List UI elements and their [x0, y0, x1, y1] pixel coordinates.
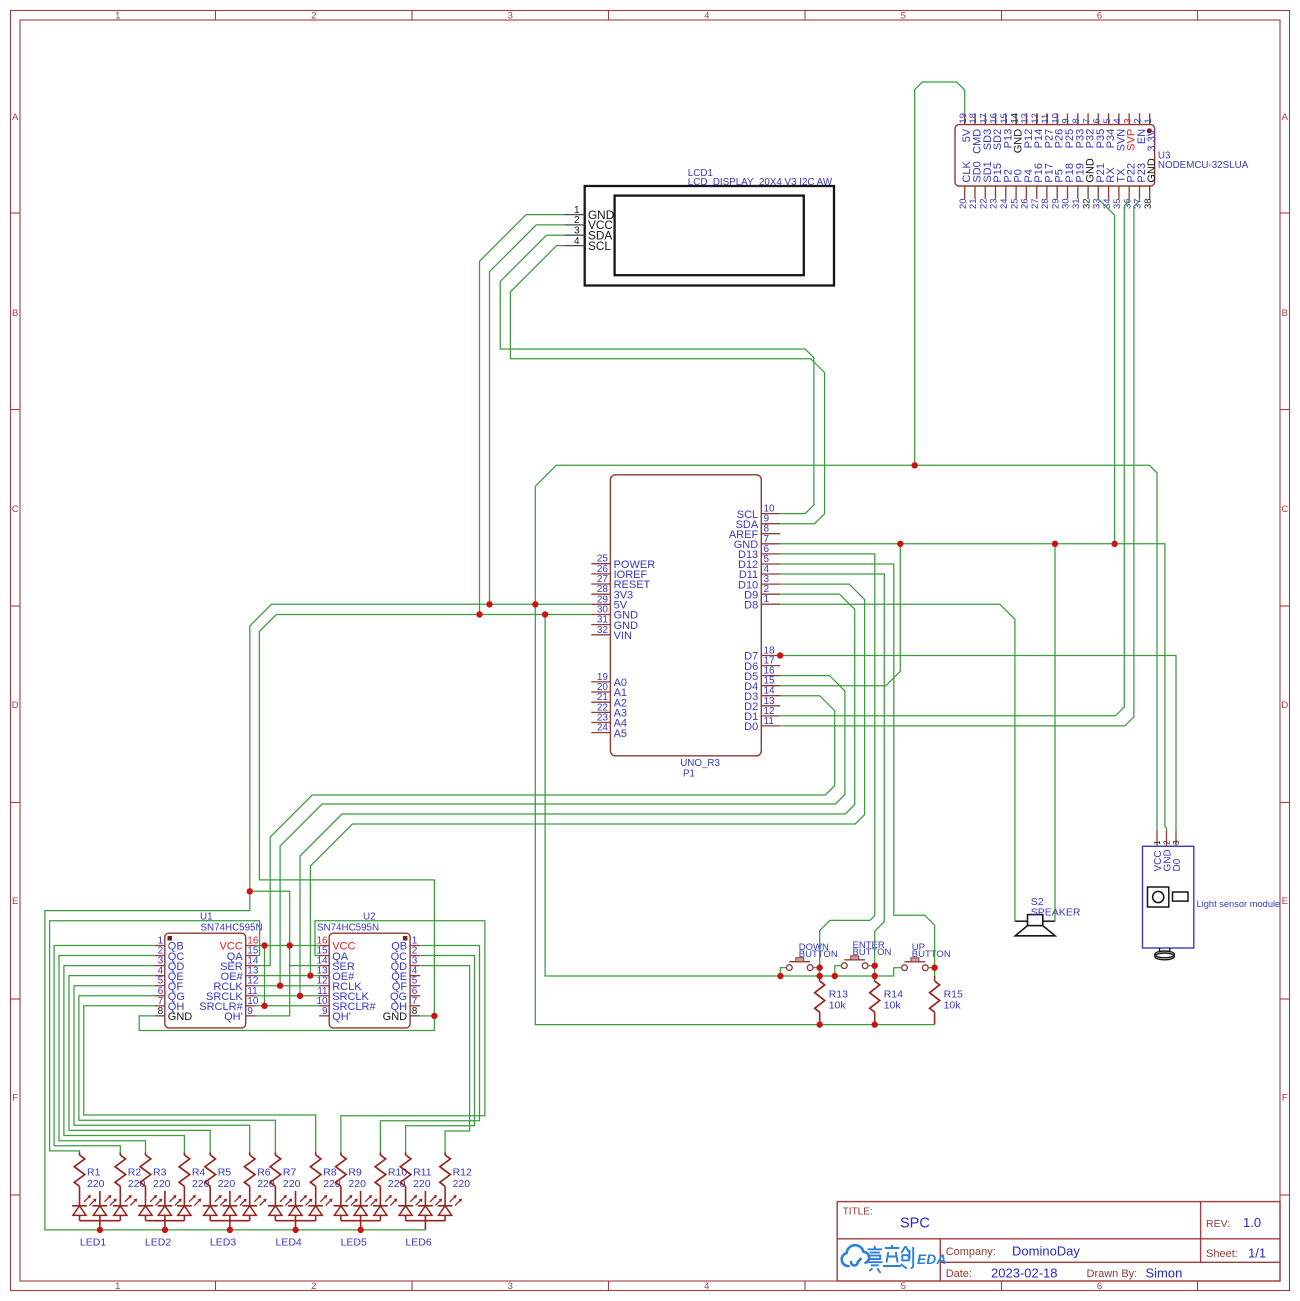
LED LED1 (dual) — [72, 1191, 137, 1249]
wire U3 P22 to P1 D1 — [780, 199, 1129, 716]
shift register U2 SN74HC595N body — [329, 933, 410, 1028]
svg-text:F: F — [12, 1092, 18, 1103]
svg-text:1: 1 — [1143, 118, 1154, 123]
resistor R6 220 — [244, 1153, 274, 1206]
svg-text:EDA: EDA — [917, 1252, 947, 1267]
svg-text:SCL: SCL — [588, 239, 611, 253]
wire U1 QD to R4 — [64, 966, 184, 1153]
svg-text:LED2: LED2 — [145, 1237, 171, 1249]
wire U1 QC to R3 — [59, 956, 155, 1153]
wire SRCLK rail U1-U2 — [256, 995, 320, 997]
svg-text:A5: A5 — [614, 728, 627, 740]
U1 pin 11 SRCLK — [206, 986, 258, 1003]
junction R13 top — [817, 973, 823, 979]
P1 pin 22 A3 — [591, 702, 627, 719]
U3 pin 36 P22 (bottom) — [1122, 163, 1137, 209]
resistor R8 220 — [310, 1153, 340, 1206]
U3 pin 23 P15 (bottom) — [989, 163, 1004, 209]
U3 pin 1 3.3V (top) — [1143, 113, 1158, 151]
wire to U2 SER — [290, 965, 320, 967]
MCU board UNO_R3 P1 body — [610, 475, 761, 756]
P1 pin 9 SDA — [736, 514, 781, 531]
U3 pin 18 CMD (top) — [968, 113, 983, 154]
svg-text:6: 6 — [1097, 1281, 1102, 1292]
U3 pin 22 SD1 (bottom) — [979, 161, 994, 209]
svg-text:BUTTON: BUTTON — [912, 949, 951, 960]
P1 pin 31 GND — [591, 615, 638, 632]
svg-text:38: 38 — [1143, 198, 1154, 209]
wire U2 GND stub link — [421, 1015, 435, 1017]
svg-text:Light sensor module: Light sensor module — [1197, 899, 1281, 909]
junction LED5 — [358, 1227, 364, 1233]
svg-text:LED1: LED1 — [80, 1237, 106, 1249]
wire speaker to GND line — [1054, 544, 1056, 922]
resistor R7 220 — [270, 1153, 300, 1206]
svg-text:BUTTON: BUTTON — [853, 947, 892, 958]
svg-text:Company:: Company: — [946, 1246, 996, 1258]
U3 pin 20 CLK (bottom) — [958, 161, 973, 209]
U2 pin 7 QH — [391, 996, 421, 1013]
wire U3 P21 to GND line — [1098, 199, 1114, 544]
U3 pin 28 P17 (bottom) — [1040, 163, 1055, 209]
svg-text:3.3V: 3.3V — [1146, 128, 1158, 151]
pushbutton ENTER BUTTON — [841, 940, 891, 969]
U1 pin 16 VCC — [219, 936, 258, 953]
U3 pin 21 SD0 (bottom) — [968, 161, 983, 209]
junction R14 top — [872, 973, 878, 979]
wire DOWN button leads — [780, 966, 934, 976]
light sensor pin 3 D0 — [1172, 831, 1183, 872]
wire 5V top line to light sensor VCC — [535, 465, 1157, 830]
LED LED5 (dual) — [334, 1191, 398, 1249]
svg-text:11: 11 — [764, 716, 775, 727]
junction R13 bottom — [817, 1021, 823, 1027]
svg-text:R8: R8 — [323, 1167, 337, 1179]
junction rail DOWN — [777, 973, 783, 979]
svg-text:R9: R9 — [348, 1167, 362, 1179]
svg-text:R12: R12 — [453, 1167, 472, 1179]
U3 pin 31 P19 (bottom) — [1071, 163, 1086, 209]
U1 pin 5 QF — [155, 976, 184, 993]
U3 pin 24 P2 (bottom) — [999, 169, 1014, 209]
wire P1 D9 to SRCLK rail — [300, 594, 855, 996]
junction GND D4 — [897, 541, 903, 547]
junction GND LCD — [476, 611, 482, 617]
junction UP terminal — [931, 965, 937, 971]
U2 pin 4 QE — [391, 966, 420, 983]
svg-text:R6: R6 — [257, 1167, 271, 1179]
LED LED4 (dual) — [268, 1191, 333, 1249]
svg-text:3: 3 — [574, 225, 580, 236]
P1 pin 23 A4 — [591, 713, 627, 730]
svg-text:B: B — [12, 308, 18, 319]
U1 pin 15 QA — [227, 946, 259, 963]
svg-text:R7: R7 — [283, 1167, 297, 1179]
svg-text:3: 3 — [1172, 840, 1181, 845]
wire U1 QH to R8 — [84, 1006, 316, 1153]
svg-text:LED3: LED3 — [210, 1237, 236, 1249]
LED LED3 (dual) — [203, 1191, 267, 1249]
P1 pin 28 3V3 — [591, 584, 633, 601]
P1 pin 21 A2 — [591, 692, 627, 709]
svg-text:UNO_R3: UNO_R3 — [680, 758, 720, 769]
U3 pin 9 P25 (top) — [1061, 113, 1076, 148]
LED LED6 (dual) — [398, 1191, 462, 1249]
svg-text:GND: GND — [383, 1011, 408, 1023]
light sensor trimmer rect — [1173, 892, 1189, 901]
speaker S2 — [1015, 896, 1081, 936]
pushbutton DOWN BUTTON — [786, 942, 837, 971]
P1 pin 32 VIN — [591, 625, 632, 642]
svg-text:SN74HC595N: SN74HC595N — [317, 922, 379, 933]
junction U2 GND — [431, 1013, 437, 1019]
U2 pin-1 marker — [403, 936, 408, 941]
U3 pin 35 TX (bottom) — [1112, 168, 1127, 209]
junction SRCLR rail — [261, 1003, 267, 1009]
junction VCC rail 2 — [287, 942, 293, 948]
U2 pin 13 OE# — [316, 966, 355, 983]
svg-text:D: D — [12, 700, 19, 711]
junction GND speaker — [1052, 541, 1058, 547]
U2 pin 6 QG — [390, 986, 420, 1003]
title block — [837, 1202, 1280, 1281]
U2 pin 14 SER — [316, 956, 354, 973]
svg-text:4: 4 — [704, 10, 709, 21]
U3 pin 3 SVP (top) — [1122, 113, 1137, 151]
svg-text:220: 220 — [218, 1178, 236, 1190]
U1 pin 3 QD — [155, 956, 185, 973]
svg-text:C: C — [12, 504, 19, 515]
LCD1 pin 1 GND — [564, 205, 614, 222]
svg-text:32: 32 — [597, 625, 609, 636]
svg-text:R4: R4 — [192, 1167, 206, 1179]
junction GND P21 — [1111, 541, 1117, 547]
U1 pin 10 SRCLR# — [199, 996, 259, 1013]
svg-text:R10: R10 — [388, 1167, 407, 1179]
U2 pin 3 QD — [391, 956, 421, 973]
wire P1 GND7 to light sensor GND — [780, 544, 1166, 831]
junction rail ENTER — [832, 973, 838, 979]
svg-text:R2: R2 — [128, 1167, 142, 1179]
wire P1 D5 to RCLK rail — [280, 676, 845, 986]
U1 pin 2 QC — [155, 946, 185, 963]
U1 pin 9 QH' — [224, 1006, 256, 1023]
junction LED4 — [292, 1227, 298, 1233]
svg-text:D8: D8 — [744, 599, 758, 611]
junction 5V drop — [532, 601, 538, 607]
svg-text:LED6: LED6 — [405, 1237, 431, 1249]
wire SRCLR# rail U1-U2 — [256, 1005, 320, 1007]
junction 5V — [247, 888, 253, 894]
P1 pin 18 D7 — [744, 646, 780, 663]
svg-text:4: 4 — [704, 1281, 709, 1292]
resistor R4 220 — [179, 1153, 209, 1206]
P1 pin 20 A1 — [591, 682, 627, 699]
wire P1 D10 to OE rail — [310, 584, 864, 976]
svg-text:220: 220 — [283, 1178, 301, 1190]
LCD display LCD1 body — [585, 186, 834, 286]
svg-text:220: 220 — [413, 1178, 431, 1190]
svg-text:8: 8 — [158, 1006, 164, 1017]
U2 pin 8 GND — [383, 1006, 421, 1023]
U1 pin 6 QG — [155, 986, 185, 1003]
junction 5V top — [912, 462, 918, 468]
wire 5V from P1 pin29 — [250, 604, 592, 891]
U2 pin 10 SRCLR# — [316, 996, 376, 1013]
svg-text:GND: GND — [1146, 158, 1158, 183]
svg-text:8: 8 — [412, 1006, 418, 1017]
U2 pin 15 QA — [316, 946, 348, 963]
U3 pin 16 SD2 (top) — [989, 113, 1004, 150]
junction GND buttons — [542, 611, 548, 617]
junction R14 bottom — [872, 1021, 878, 1027]
U3 pin 5 P34 (top) — [1102, 113, 1117, 148]
svg-text:C: C — [1281, 504, 1288, 515]
U1 pin 7 QH — [155, 996, 185, 1013]
svg-text:GND: GND — [168, 1011, 193, 1023]
P1 pin 15 D4 — [744, 676, 780, 693]
svg-text:R3: R3 — [153, 1167, 167, 1179]
resistor R5 220 — [205, 1153, 235, 1206]
U3 pin 2 EN (top) — [1133, 113, 1148, 144]
resistor R2 220 — [115, 1153, 145, 1206]
svg-text:Drawn By:: Drawn By: — [1087, 1268, 1138, 1280]
light sensor pin 1 VCC — [1153, 831, 1164, 872]
U2 pin 16 VCC — [316, 936, 355, 953]
P1 pin 29 5V — [591, 594, 627, 611]
U2 pin 5 QF — [392, 976, 420, 993]
wire GND rail to buttons — [545, 615, 896, 977]
wire RCLK rail U1-U2 — [256, 985, 320, 987]
svg-text:1/1: 1/1 — [1248, 1246, 1266, 1261]
U3 pin 10 P26 (top) — [1050, 113, 1065, 148]
svg-text:SPEAKER: SPEAKER — [1031, 907, 1081, 919]
svg-text:220: 220 — [87, 1178, 105, 1190]
svg-text:220: 220 — [453, 1178, 471, 1190]
U1 pin 13 OE# — [221, 966, 259, 983]
svg-text:10k: 10k — [884, 1000, 902, 1012]
LCD1 pin 3 SDA — [564, 225, 612, 242]
P1 pin 1 D8 — [744, 594, 780, 611]
U2 pin 2 QC — [391, 946, 421, 963]
svg-text:1: 1 — [1153, 840, 1162, 845]
svg-text:E: E — [12, 896, 18, 907]
U3 pin-1 marker — [1147, 128, 1152, 133]
U1 pin 12 RCLK — [213, 976, 259, 993]
svg-text:1: 1 — [115, 1281, 120, 1292]
P1 pin 11 D0 — [744, 716, 780, 733]
P1 pin 17 D6 — [744, 656, 780, 673]
svg-text:B: B — [1282, 308, 1288, 319]
U3 pin 14 GND (top) — [1009, 113, 1024, 153]
wire 5V drop / pulldown rail — [535, 486, 934, 1024]
svg-text:Simon: Simon — [1146, 1266, 1183, 1281]
svg-text:2: 2 — [311, 1281, 316, 1292]
wire U2 QA to R9 — [315, 921, 485, 1153]
P1 pin 4 D11 — [739, 564, 780, 581]
wire U2 QD to R12 — [421, 966, 470, 1153]
U2 pin 9 QH' — [319, 1006, 351, 1023]
pushbutton UP BUTTON — [902, 942, 951, 971]
svg-text:NODEMCU-32SLUA: NODEMCU-32SLUA — [1158, 160, 1249, 171]
wire U3 5V pin19 — [915, 82, 965, 465]
U1 pin 1 QB — [155, 936, 184, 953]
svg-text:LED5: LED5 — [341, 1237, 367, 1249]
wire LCD GND to GND rail — [480, 215, 565, 615]
P1 pin 5 D12 — [738, 554, 780, 571]
svg-text:QH': QH' — [224, 1011, 243, 1023]
U2 pin 12 RCLK — [316, 976, 362, 993]
svg-text:R5: R5 — [218, 1167, 232, 1179]
wire LCD SDA to P1 SCL — [500, 235, 814, 513]
junction LED1 — [97, 1227, 103, 1233]
P1 pin 3 D10 — [738, 574, 780, 591]
svg-text:220: 220 — [348, 1178, 366, 1190]
svg-text:3: 3 — [508, 10, 513, 21]
junction OE# — [307, 972, 313, 978]
U1 pin-1 marker — [168, 936, 173, 941]
P1 pin 16 D5 — [744, 666, 780, 683]
U3 pin 4 SVN (top) — [1112, 113, 1127, 151]
light sensor photodetector square — [1148, 887, 1169, 907]
svg-text:BUTTON: BUTTON — [799, 949, 838, 960]
svg-text:LCD_DISPLAY_20X4 V3 I2C AW: LCD_DISPLAY_20X4 V3 I2C AW — [688, 177, 833, 188]
svg-text:5: 5 — [901, 1281, 906, 1292]
junction D7 — [777, 652, 783, 658]
title block texts — [843, 1207, 1266, 1281]
resistor R11 220 — [400, 1153, 431, 1206]
svg-text:1: 1 — [764, 594, 770, 605]
resistor R3 220 — [140, 1153, 170, 1206]
svg-text:4: 4 — [574, 236, 580, 247]
LCD1 pin 2 VCC — [564, 215, 613, 232]
resistor R15 10k — [930, 976, 963, 1025]
svg-text:24: 24 — [597, 723, 609, 734]
P1 pin 27 RESET — [591, 574, 650, 591]
P1 pin 19 A0 — [591, 672, 627, 689]
wire U2 QB to R10 — [380, 946, 479, 1153]
wire LCD VCC to 5V rail — [490, 225, 565, 604]
junction LED3 — [227, 1227, 233, 1233]
svg-text:220: 220 — [153, 1178, 171, 1190]
resistor R10 220 — [375, 1153, 407, 1206]
U3 pin 19 5V (top) — [958, 113, 973, 142]
svg-text:10k: 10k — [944, 1000, 962, 1012]
resistor R9 220 — [336, 1153, 366, 1206]
light sensor pin 2 GND — [1163, 831, 1174, 872]
wire U1 QB to R2 — [54, 946, 155, 1153]
wire U1 QA to R1 — [50, 921, 260, 1153]
svg-text:D: D — [1281, 700, 1288, 711]
svg-text:E: E — [1282, 896, 1288, 907]
wire U1 QF to R6 — [74, 986, 250, 1153]
U3 pin 32 GND (bottom) — [1081, 158, 1096, 209]
wire P1 D13 to DOWN button — [780, 554, 875, 976]
svg-text:TITLE:: TITLE: — [843, 1207, 873, 1218]
svg-text:P1: P1 — [683, 769, 695, 780]
resistor R1 220 — [74, 1153, 104, 1206]
shift register U1 SN74HC595N body — [165, 933, 246, 1028]
svg-text:SPC: SPC — [900, 1216, 930, 1232]
P1 pin 30 GND — [591, 605, 638, 622]
U3 pin 8 P33 (top) — [1071, 113, 1086, 148]
P1 pin 26 IOREF — [591, 564, 647, 581]
svg-text:SN74HC595N: SN74HC595N — [201, 922, 263, 933]
P1 pin 2 D9 — [744, 584, 780, 601]
wire P1 D11 to ENTER button — [780, 574, 884, 976]
junction DOWN terminal — [817, 964, 823, 970]
wire 5V branch to U1 VCC / QH' — [250, 891, 290, 1016]
U3 pin 12 P14 (top) — [1030, 113, 1045, 148]
resistor R13 10k — [815, 976, 848, 1025]
svg-text:LED4: LED4 — [276, 1237, 302, 1249]
U1 pin 8 GND — [155, 1006, 193, 1023]
svg-text:A: A — [1282, 112, 1289, 123]
resistor R14 10k — [870, 976, 903, 1025]
U3 pin 27 P16 (bottom) — [1030, 163, 1045, 209]
wire GND from P1 pin30 to U2/U1 GND — [139, 615, 591, 1031]
U3 pin 37 P23 (bottom) — [1133, 163, 1148, 209]
wire P1 D3 to U1 SER — [256, 696, 835, 966]
svg-text:REV:: REV: — [1206, 1218, 1230, 1230]
U3 pin 26 P4 (bottom) — [1020, 169, 1035, 209]
U3 pin 25 P0 (bottom) — [1009, 169, 1024, 209]
resistor R12 220 — [440, 1153, 472, 1206]
U3 pin 15 P13 (top) — [999, 113, 1014, 148]
U3 pin 33 P21 (bottom) — [1092, 163, 1107, 209]
svg-text:1: 1 — [115, 10, 120, 21]
wire U2 QC to R11 — [406, 956, 475, 1153]
svg-text:5: 5 — [901, 10, 906, 21]
light sensor module body — [1143, 846, 1194, 948]
svg-text:VIN: VIN — [614, 630, 632, 642]
svg-text:2: 2 — [311, 10, 316, 21]
svg-text:A: A — [12, 112, 19, 123]
U3 pin 34 RX (bottom) — [1102, 167, 1117, 209]
P1 pin 8 AREF — [729, 524, 780, 541]
U3 pin 38 GND (bottom) — [1143, 158, 1158, 209]
P1 pin 13 D2 — [744, 696, 780, 713]
junction SRCLK — [297, 993, 303, 999]
U3 pin 29 P5 (bottom) — [1050, 169, 1065, 209]
wire P1 D12 to UP button — [780, 564, 934, 976]
U1 pin 14 SER — [220, 956, 259, 973]
svg-text:2: 2 — [1163, 840, 1172, 845]
wire LCD SCL to P1 SDA — [510, 246, 824, 524]
wire P1 D8 to speaker — [780, 604, 1015, 921]
P1 pin 24 A5 — [591, 723, 627, 740]
svg-text:R1: R1 — [87, 1167, 101, 1179]
wire P1 D4 to GND line — [780, 544, 900, 686]
P1 pin 10 SCL — [737, 504, 780, 521]
LCD1 pin 4 SCL — [564, 236, 611, 253]
U3 pin 6 P35 (top) — [1092, 113, 1107, 148]
op chip U3 NODEMCU-32SLUA body — [955, 125, 1155, 186]
svg-text:R11: R11 — [413, 1167, 432, 1179]
svg-text:DominoDay: DominoDay — [1012, 1244, 1080, 1259]
svg-text:3: 3 — [508, 1281, 513, 1292]
P1 pin 12 D1 — [744, 706, 780, 723]
junction LED2 — [162, 1227, 168, 1233]
junction ENTER terminal — [872, 963, 878, 969]
svg-text:Date:: Date: — [946, 1268, 972, 1280]
EDA logo — [842, 1245, 869, 1266]
wire U1 QE to R5 — [69, 976, 210, 1153]
svg-text:D0: D0 — [744, 721, 758, 733]
svg-text:D0: D0 — [1172, 858, 1183, 871]
wire P1 D7 to light sensor D0 — [780, 656, 1176, 831]
junction VCC rail — [261, 942, 267, 948]
